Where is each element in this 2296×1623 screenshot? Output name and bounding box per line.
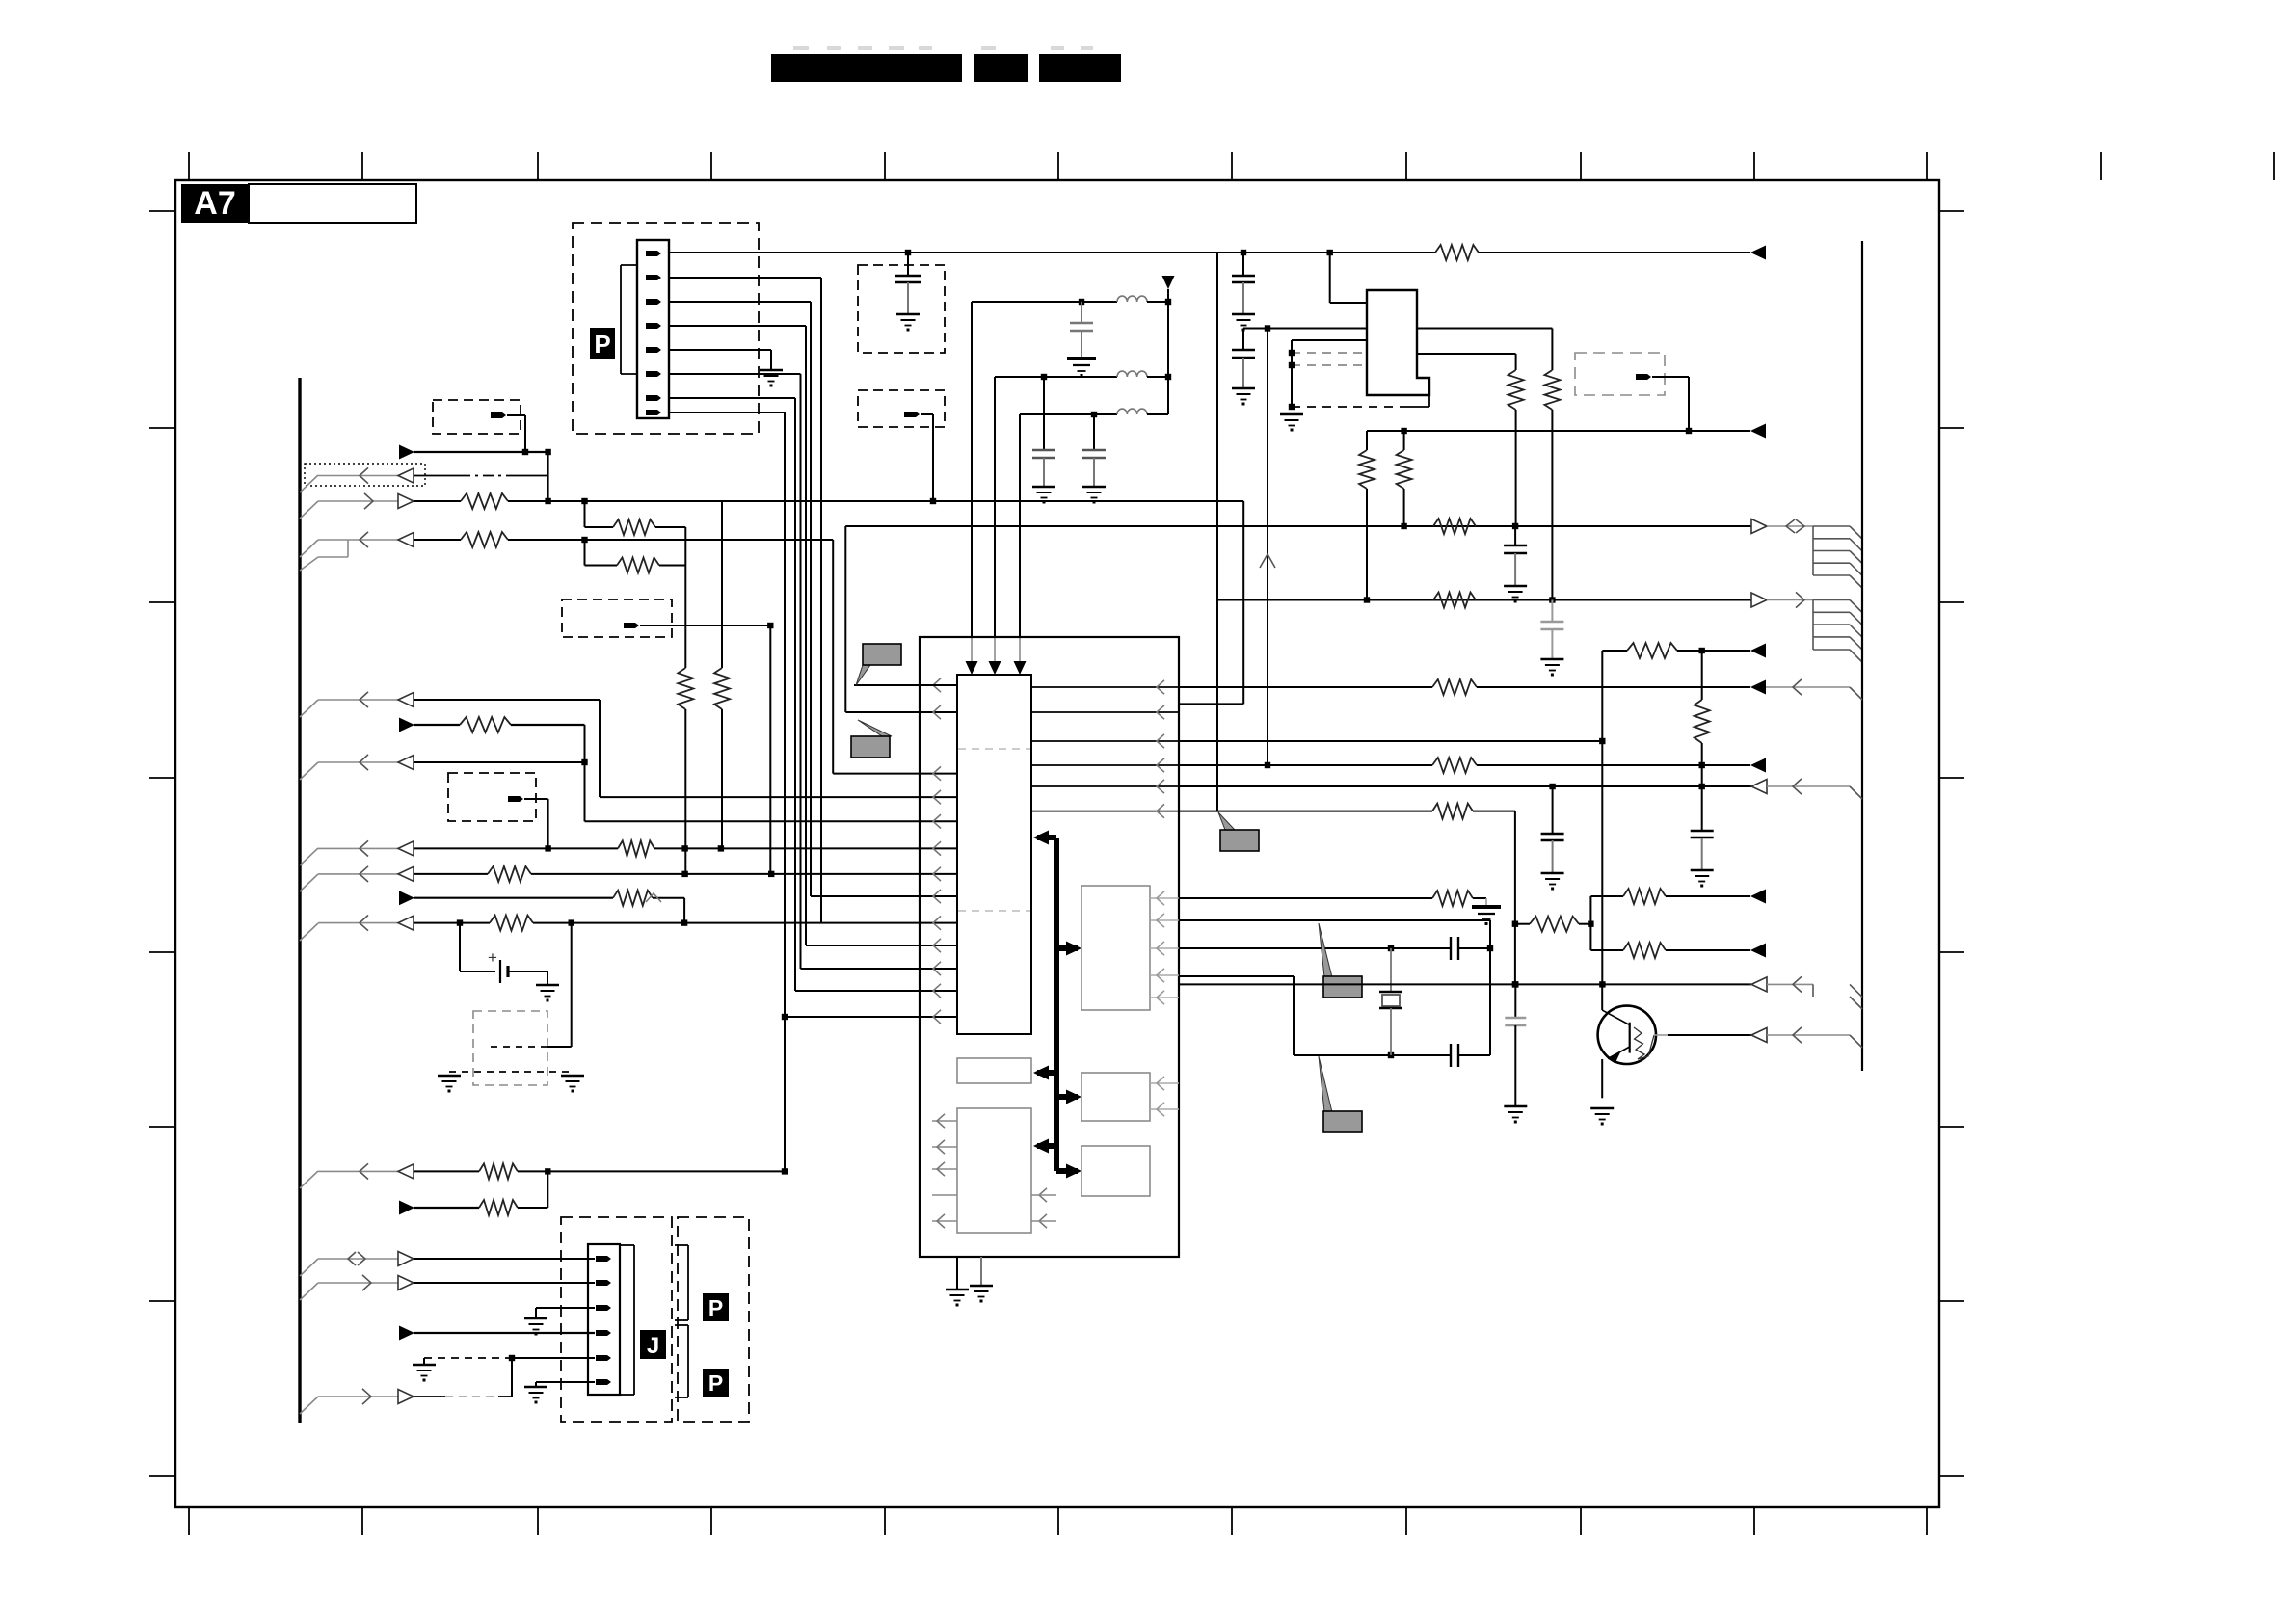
resistor R13 bbox=[1544, 370, 1560, 600]
dashed box D3 with pin bbox=[858, 390, 945, 501]
dotted highlight box bbox=[305, 464, 425, 486]
thick data bus bbox=[1037, 838, 1078, 1171]
riser comb A to IC pin 739 bbox=[845, 526, 957, 712]
vertical chain Rv1 bbox=[678, 527, 693, 874]
riser to IC pin 802 bbox=[833, 540, 957, 774]
bottom border tick marks bbox=[189, 1507, 1927, 1535]
dashed link lines bbox=[449, 1047, 573, 1072]
wire W13 (out) resistor R11 bbox=[399, 1171, 547, 1215]
wire W-546 (comb A) bbox=[845, 523, 1751, 529]
pin3 wire bbox=[669, 302, 957, 896]
main IC U1 body bbox=[957, 675, 1031, 1034]
dashed box D4 with pin bbox=[562, 599, 774, 874]
IC right pin wires (inside box) bbox=[1031, 680, 1179, 818]
IC left pin chevrons bbox=[933, 678, 941, 1024]
sheet border frame bbox=[175, 180, 1939, 1507]
U5 right pins bbox=[1150, 1077, 1179, 1116]
gray flag F2 bbox=[851, 720, 892, 758]
resistor R18 on W-623 bbox=[1433, 593, 1476, 608]
wire W7 (in) bbox=[300, 755, 585, 780]
connector J1 pins bbox=[596, 1256, 611, 1385]
arrow + bidir marker W-546 bbox=[1751, 519, 1813, 534]
capacitor C4 bbox=[1082, 414, 1106, 487]
J pin2 wire bbox=[300, 1275, 595, 1300]
wire W11 (in) resistor R9 to IC pin 955 bbox=[300, 916, 957, 942]
P3 label bbox=[703, 1369, 729, 1397]
ground G10 bbox=[1232, 314, 1255, 332]
wire W3 drop bbox=[1179, 501, 1243, 704]
vertical sense wire with up-arrow bbox=[1260, 329, 1275, 766]
pin5 wire to ground bbox=[669, 350, 771, 370]
regulator gnd bracket bbox=[1289, 340, 1429, 410]
pin7 wire bbox=[669, 398, 957, 991]
transistor Q1 bbox=[1598, 984, 1656, 1098]
inductor L2 bbox=[995, 371, 1171, 380]
P2 label bbox=[703, 1293, 729, 1321]
IF arrow 2 bbox=[989, 661, 1001, 675]
sub-block U3 bbox=[1081, 886, 1150, 1010]
resistor R24 to arrow bbox=[1590, 889, 1766, 904]
comb B bbox=[1813, 600, 1862, 663]
battery B1 bbox=[460, 923, 547, 985]
wire to regulator pin bbox=[1243, 325, 1367, 331]
block U6 bbox=[957, 1108, 1031, 1233]
wire W4 (in) with resistor R3 bbox=[300, 532, 833, 571]
resistor R23 bbox=[1515, 917, 1594, 932]
capacitor C13 bbox=[1505, 984, 1526, 1106]
ground G9 bbox=[1082, 487, 1106, 504]
gray flag F1 bbox=[856, 644, 901, 685]
J wire W-1449 bbox=[300, 1389, 512, 1414]
wire W10 (out) resistor R8 bbox=[399, 891, 684, 923]
inductor L3 bbox=[1020, 409, 1168, 417]
ground G18 bbox=[1504, 1106, 1527, 1124]
top border tick marks bbox=[189, 152, 2274, 180]
ground G4 bbox=[561, 1076, 584, 1093]
IC ground stub 1 bbox=[946, 1257, 969, 1307]
vertical link 1662 bbox=[1601, 651, 1603, 984]
capacitor C1 bbox=[895, 253, 921, 314]
wire W-675 resistor R20 bbox=[1602, 643, 1750, 658]
regulator input wire bbox=[1330, 253, 1367, 303]
bus arrow into U3 bbox=[1066, 942, 1081, 956]
gray flag F3 bbox=[1218, 812, 1259, 851]
ground G17 bbox=[1472, 907, 1501, 925]
vertical chain Rv2 lower bbox=[721, 709, 723, 848]
ground G11 bbox=[1232, 388, 1255, 406]
redaction bar 2 bbox=[974, 54, 1028, 82]
capacitor C7 bbox=[1504, 526, 1527, 586]
resistor R12 on top rail bbox=[1435, 245, 1750, 260]
wire W6 (out) resistor R5 to IC pin 852 bbox=[399, 717, 957, 821]
crystal bottom wire with capacitor C12 bbox=[1294, 1044, 1490, 1067]
ground below battery bbox=[536, 985, 559, 1002]
connector P1 body bbox=[637, 240, 669, 418]
arrow W-794 bbox=[1750, 758, 1766, 773]
ground G8 bbox=[1032, 487, 1055, 504]
redaction bar 1 bbox=[771, 54, 962, 82]
crystal top wire bbox=[1179, 919, 1490, 921]
wire W2 (in, dashed) bbox=[300, 467, 548, 492]
dashed box D1 with pin bbox=[433, 400, 525, 452]
arrow W-1074 bbox=[1751, 1027, 1862, 1048]
P-group bracket 2 bbox=[675, 1325, 688, 1397]
ground G19 bbox=[1590, 1108, 1614, 1126]
crystal loop left wire bbox=[1179, 976, 1294, 1055]
wire W-447 to arrow bbox=[1367, 428, 1750, 434]
pin8 wire bbox=[669, 412, 785, 1017]
bus arrow into U7 bbox=[1066, 1164, 1081, 1179]
wire W-794 resistor R28 bbox=[1179, 758, 1750, 773]
connector J1 body bbox=[588, 1244, 620, 1395]
wire W9 (in) resistor R7 to IC pin 907 bbox=[300, 866, 957, 891]
splitter stub bbox=[1589, 896, 1591, 950]
wire W-769 bbox=[1179, 738, 1606, 744]
antenna mast bbox=[1162, 274, 1175, 414]
dashed box D5 with pin bbox=[448, 773, 548, 848]
resistor R14 bbox=[1508, 370, 1524, 526]
ground G7 bbox=[1067, 359, 1096, 377]
left vertical bus wire bbox=[298, 378, 301, 1423]
arrow W-1021 bbox=[1751, 976, 1862, 1009]
wire W1 (out) with filled arrow bbox=[399, 445, 551, 460]
regulator out wire 1 bbox=[1417, 329, 1552, 371]
capacitor C3 bbox=[1032, 377, 1055, 487]
IF arrow 3 bbox=[1014, 661, 1027, 675]
U3 right pins bbox=[1150, 891, 1179, 1004]
capacitor C9 bbox=[1541, 786, 1564, 873]
arrow W-816 bbox=[1751, 779, 1862, 799]
IC flag stub pin 711 bbox=[854, 684, 957, 686]
top rail wire bbox=[905, 250, 1435, 255]
J pin3 ground bbox=[524, 1308, 595, 1336]
IF arrow 1 bbox=[966, 661, 978, 675]
bus arrow into U1 bbox=[1033, 831, 1049, 845]
IC internal partition lines bbox=[958, 749, 1030, 911]
comb A bbox=[1813, 526, 1862, 588]
top rail output arrow bbox=[1750, 246, 1766, 260]
connector P1 bracket bbox=[621, 265, 637, 374]
dashed box D2 (cap to ground) bbox=[858, 265, 945, 353]
capacitor C8 bbox=[1540, 600, 1563, 660]
right bus vertical wire bbox=[1861, 241, 1863, 1071]
pin4 wire bbox=[669, 326, 957, 945]
redaction bar 3 bbox=[1039, 54, 1121, 82]
J1 label bbox=[640, 1330, 666, 1359]
svg-text:+: + bbox=[488, 948, 497, 967]
sub-block U5 bbox=[1081, 1073, 1150, 1121]
vertical chain Rv2 bbox=[714, 501, 730, 709]
wire W-932 resistor R26 to ground bbox=[1179, 891, 1486, 907]
connector J1 bracket bbox=[620, 1245, 634, 1395]
output arrow W-447 bbox=[1750, 424, 1766, 439]
ground G15 bbox=[1541, 873, 1564, 891]
svg-text:J: J bbox=[647, 1333, 659, 1359]
gray flag F5 bbox=[1319, 1056, 1362, 1132]
connector P-group dashed box bbox=[678, 1217, 749, 1422]
IF input vertical 2 bbox=[994, 377, 996, 663]
crystal mid wire with capacitor C11 bbox=[1179, 937, 1493, 960]
wire W-1021 bbox=[1179, 981, 1751, 987]
pin2 wire bbox=[669, 278, 821, 923]
dashed box D6 (gray) with pin bbox=[1575, 353, 1689, 431]
ground G5 bbox=[760, 370, 783, 387]
resistor R15 bbox=[1359, 431, 1375, 600]
IF input vertical 3 bbox=[1019, 414, 1021, 663]
resistor R25 to arrow bbox=[1590, 943, 1766, 958]
crystal X1 bbox=[1379, 948, 1402, 1055]
wire W-713 resistor R19 bbox=[1179, 679, 1750, 695]
big-box right edge wire bbox=[1216, 253, 1218, 811]
transistor base wire W-1074 bbox=[1654, 1034, 1751, 1036]
shield dashed box bbox=[473, 923, 572, 1085]
J pin4 wire bbox=[399, 1326, 595, 1341]
pin1 wire (top rail) bbox=[669, 252, 1217, 253]
right border tick marks bbox=[1939, 211, 1964, 1476]
connector P1 pins bbox=[646, 251, 661, 415]
J pin1 wire bbox=[300, 1252, 595, 1277]
riser to IC pin 1055 bbox=[782, 1014, 957, 1172]
wire W5 (in) to IC pin 827 bbox=[300, 692, 957, 797]
wire W-841 resistor R22 bbox=[1179, 804, 1518, 988]
resistor R16 bbox=[1397, 431, 1412, 526]
wire W3 (out) with resistor R1 bbox=[300, 493, 1243, 519]
bus arrow into U5 bbox=[1066, 1090, 1081, 1104]
IC ground stub 2 bbox=[970, 1257, 993, 1303]
arrow W-675 bbox=[1750, 644, 1766, 658]
svg-text:P: P bbox=[594, 330, 610, 359]
svg-text:A7: A7 bbox=[194, 185, 235, 222]
bus arrow into U6 bbox=[1033, 1139, 1049, 1154]
U6 right pin chevrons bbox=[1031, 1188, 1056, 1228]
ground G16 bbox=[1691, 870, 1714, 888]
resistor R17 on W-546 bbox=[1433, 519, 1476, 534]
left border tick marks bbox=[149, 211, 175, 1476]
capacitor C6 bbox=[1232, 329, 1255, 389]
arrow W-623 bbox=[1751, 592, 1813, 607]
text remnant marks bbox=[793, 46, 1093, 50]
connector P1 label bbox=[590, 328, 615, 359]
connector J1 dashed box bbox=[561, 1217, 672, 1422]
resistor R21 vertical bbox=[1695, 651, 1710, 789]
wire W14 (in) resistor R27 bbox=[299, 1170, 301, 1172]
P-group bracket 1 bbox=[675, 1245, 688, 1320]
connector P1 dashed box bbox=[573, 223, 759, 434]
inductor L1 bbox=[972, 296, 1171, 305]
J pin5 dashed ground bbox=[413, 1355, 595, 1397]
capacitor C2 bbox=[1070, 302, 1093, 359]
wire W8 (in) resistor R6 to IC pin 880 bbox=[300, 840, 957, 865]
arrow W-713 bbox=[1750, 679, 1862, 700]
osc block U4 bbox=[957, 1058, 1031, 1083]
U6 left pins bbox=[932, 1114, 957, 1228]
IF input vertical 1 bbox=[971, 302, 973, 663]
IC outer box bbox=[920, 637, 1179, 1257]
wire W-816 bbox=[1179, 784, 1751, 789]
ground G3 bbox=[438, 1076, 461, 1093]
pin6 wire bbox=[669, 374, 957, 969]
regulator U2 outline bbox=[1367, 290, 1429, 395]
sub-block U7 bbox=[1081, 1146, 1150, 1196]
capacitor C10 bbox=[1691, 786, 1714, 870]
ground G13 bbox=[1504, 586, 1527, 603]
junction riser W1-W3 bbox=[547, 452, 549, 501]
gray flag F4 bbox=[1319, 923, 1362, 998]
ground G6 bbox=[896, 314, 920, 332]
bus arrow into U4 bbox=[1033, 1066, 1049, 1080]
wire W-623 (comb B) bbox=[1217, 597, 1751, 602]
crystal loop right vertical bbox=[1489, 920, 1491, 1055]
wire W12 (in) resistor R10 bbox=[300, 1163, 788, 1188]
J pin6 ground bbox=[524, 1382, 595, 1404]
regulator out wire 2 bbox=[1417, 354, 1516, 370]
module label A7 box bbox=[181, 184, 416, 223]
ground G12 bbox=[1280, 414, 1303, 432]
branch resistor R4 bbox=[585, 540, 686, 573]
ground G14 bbox=[1540, 659, 1563, 677]
svg-text:P: P bbox=[708, 1295, 723, 1320]
branch resistor R2 bbox=[585, 501, 686, 535]
svg-text:P: P bbox=[708, 1370, 723, 1396]
capacitor C5 bbox=[1232, 253, 1255, 314]
